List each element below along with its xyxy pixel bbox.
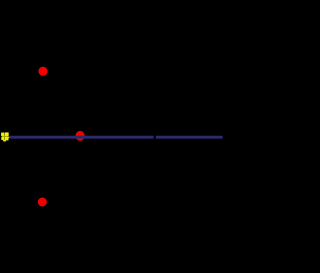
wire: real-axis locus right segment	[156, 136, 223, 139]
wire: real-axis locus left segment (glow)	[10, 135, 154, 139]
pole marker P3 (lower complex pole, red dot)	[38, 198, 47, 207]
wire: real-axis locus right segment (glow)	[156, 135, 223, 139]
node: yellow star/origin marker at left end of axis	[1, 132, 9, 141]
pole marker P1 (upper complex pole, red dot)	[38, 67, 47, 76]
wire: real-axis locus left segment	[10, 136, 154, 139]
pole marker P2 (real-axis pole, red dot under locus line)	[76, 131, 85, 141]
